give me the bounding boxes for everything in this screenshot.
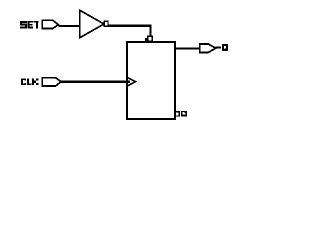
wire vertical down to flip-flop top pin xyxy=(150,26,152,37)
inverter U1 triangle xyxy=(80,10,104,37)
inverter U1 bubble xyxy=(104,21,108,26)
clock chevron on flip-flop xyxy=(128,78,136,86)
port Q xyxy=(200,44,216,52)
node SET label xyxy=(20,21,38,28)
QB pin label glyph xyxy=(181,111,187,117)
wire flip-flop Q output xyxy=(176,47,200,49)
wire SET to inverter xyxy=(58,25,80,27)
node CLK label xyxy=(21,79,38,86)
wire port Q tail xyxy=(216,47,222,49)
flip-flop U2 body xyxy=(127,42,175,119)
wire inverter output horizontal xyxy=(108,25,152,27)
node Q label xyxy=(223,45,227,51)
pin number tick (top pin) xyxy=(145,38,147,41)
port SET xyxy=(42,20,58,28)
flip-flop top pin square xyxy=(148,36,153,41)
port CLK xyxy=(42,78,61,86)
wire CLK to flip-flop xyxy=(61,81,130,83)
flip-flop QB pin square xyxy=(175,112,179,116)
